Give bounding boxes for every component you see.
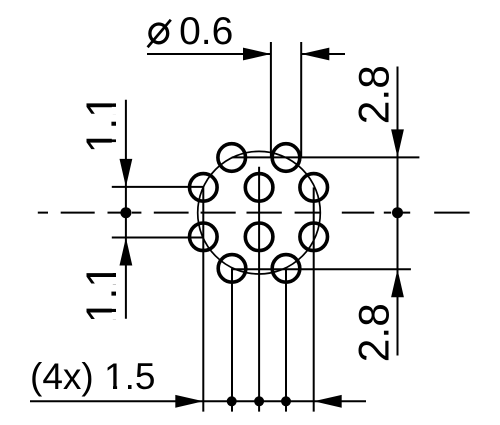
svg-text:0.6: 0.6: [179, 10, 233, 53]
svg-text:2.8: 2.8: [352, 303, 399, 362]
svg-text:1.1: 1.1: [79, 94, 126, 153]
svg-text:(4x) 1.5: (4x) 1.5: [30, 356, 155, 397]
svg-text:2.8: 2.8: [352, 65, 399, 124]
svg-text:1.1: 1.1: [79, 264, 126, 323]
